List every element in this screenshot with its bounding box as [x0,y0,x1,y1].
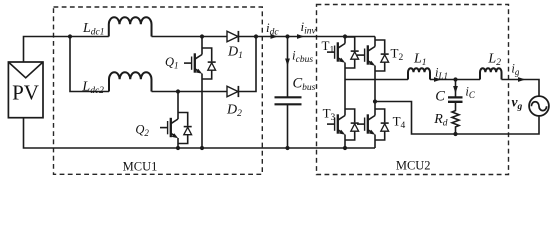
svg-text:MCU1: MCU1 [123,160,158,174]
svg-text:MCU2: MCU2 [396,159,431,173]
svg-text:PV: PV [12,81,39,105]
svg-text:C: C [435,89,445,105]
